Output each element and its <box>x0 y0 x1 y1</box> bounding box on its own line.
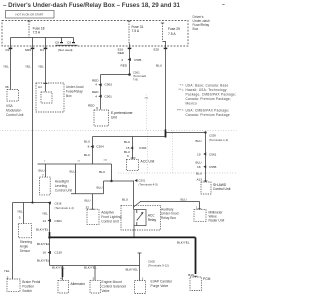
svg-text:Purge Valve: Purge Valve <box>151 284 169 288</box>
svg-text:USA: CMBS/PAX Package;: USA: CMBS/PAX Package; <box>186 108 230 112</box>
brake pedal position switch drop <box>12 203 14 280</box>
svg-text:Radar Unit: Radar Unit <box>209 219 225 223</box>
svg-text:Alternator: Alternator <box>71 282 86 286</box>
svg-text:14: 14 <box>43 219 47 223</box>
svg-text:7.5 A: 7.5 A <box>132 29 140 33</box>
stub C9 (not used) <box>73 38 75 43</box>
svg-text:16: 16 <box>43 250 47 254</box>
wire bus to adaptive front lighting <box>71 193 104 195</box>
section divider dotted lines <box>0 130 237 132</box>
svg-text:C8: C8 <box>55 41 59 45</box>
svg-text:BLK/YEL: BLK/YEL <box>84 266 97 270</box>
svg-text:Modulator-: Modulator- <box>6 109 22 113</box>
splice C559 <box>204 131 206 133</box>
svg-text:E20: E20 <box>154 47 160 51</box>
svg-text:YEL: YEL <box>38 65 44 69</box>
wire C501 to ACC relay <box>133 181 135 210</box>
svg-text:Control Unit: Control Unit <box>101 220 118 224</box>
svg-text:E-pretensioner: E-pretensioner <box>111 111 134 115</box>
wire splice to left <box>101 74 130 76</box>
svg-text:B16: B16 <box>188 273 194 277</box>
svg-text:M29: M29 <box>25 48 31 52</box>
svg-text:C558: C558 <box>209 165 217 169</box>
svg-text:Box: Box <box>193 27 199 31</box>
svg-text:Canada: Premium Package;: Canada: Premium Package; <box>186 97 232 101</box>
headlight leveling drop <box>45 164 47 177</box>
svg-text:BLK/YEL: BLK/YEL <box>125 268 138 272</box>
svg-text:38: 38 <box>5 85 9 89</box>
stub D1 <box>45 38 47 46</box>
svg-text:A1: A1 <box>38 85 42 89</box>
e-pretensioner unit <box>94 110 109 126</box>
driver's under-dash fuse/relay box (dashed) <box>2 21 188 47</box>
svg-text:– Driver's Under-dash Fuse/Rel: – Driver's Under-dash Fuse/Relay Box – F… <box>3 2 181 9</box>
connector C561 inline <box>203 152 206 155</box>
svg-text:–: – <box>222 2 225 8</box>
svg-text:Valve: Valve <box>102 289 110 293</box>
svg-text:6: 6 <box>127 154 129 158</box>
wire fuse31 E16 drop <box>129 46 131 75</box>
engine mount control solenoid valve <box>90 280 100 293</box>
svg-text:C130: C130 <box>55 250 63 254</box>
(Not used) bracket <box>56 44 78 46</box>
svg-text:D1: D1 <box>40 48 44 52</box>
fuse 29 <box>162 23 164 42</box>
svg-text:C801: C801 <box>55 219 63 223</box>
connector C585 <box>128 58 131 61</box>
svg-text:Fuse 29: Fuse 29 <box>168 27 180 31</box>
svg-text:EVAP Canister: EVAP Canister <box>151 280 174 284</box>
svg-text:YEL: YEL <box>42 212 48 216</box>
svg-text:RED: RED <box>88 104 95 108</box>
svg-text:C303: C303 <box>139 146 147 150</box>
connector C558 inline <box>203 165 206 168</box>
svg-text:Front Lighting: Front Lighting <box>101 215 121 219</box>
svg-text:YEL: YEL <box>25 65 31 69</box>
relay output wire to radar <box>134 202 141 208</box>
left bottom splice C818 <box>31 201 33 203</box>
svg-text:Control Unit: Control Unit <box>6 113 23 117</box>
svg-text:7.5 A: 7.5 A <box>168 32 176 36</box>
svg-text:(Terminals 4-5): (Terminals 4-5) <box>139 182 158 186</box>
connector ticks at box exits <box>9 47 13 49</box>
connector C901 <box>98 95 101 98</box>
svg-text:Switch: Switch <box>22 289 32 293</box>
svg-text:1: 1 <box>196 205 198 209</box>
svg-text:BLU: BLU <box>85 198 91 202</box>
headlight leveling control unit <box>40 177 51 195</box>
HOT IN ON OR START label box <box>6 11 55 19</box>
svg-text:BLU: BLU <box>196 139 202 143</box>
svg-text:Brake Pedal: Brake Pedal <box>22 280 40 284</box>
svg-text:C818: C818 <box>55 202 62 206</box>
connector C304 inline <box>90 145 93 148</box>
wire junction line left of fuse29 splice <box>93 136 166 138</box>
splice C561 <box>128 73 131 76</box>
svg-text:C304: C304 <box>96 145 104 149</box>
chain to SH-AWD <box>205 133 207 183</box>
svg-text:Engine Mount: Engine Mount <box>102 280 122 284</box>
connector C801 inline <box>48 219 51 222</box>
chain to e-pretensioner <box>100 75 102 110</box>
svg-text:A13: A13 <box>196 177 202 181</box>
svg-text:C559: C559 <box>209 133 216 137</box>
millimeter wave radar unit <box>194 209 206 221</box>
steering angle sensor <box>18 224 31 238</box>
svg-text:Hawaii; USA: Technology: Hawaii; USA: Technology <box>186 88 227 92</box>
svg-text:Relay Box: Relay Box <box>161 216 176 220</box>
svg-text:BLU: BLU <box>99 170 105 174</box>
svg-text:(Terminals 1-4): (Terminals 1-4) <box>209 138 228 142</box>
svg-text:BLU: BLU <box>196 172 202 176</box>
svg-text:1: 1 <box>142 277 144 281</box>
svg-text:BLU: BLU <box>156 64 162 68</box>
wire M29 long drop <box>32 46 34 203</box>
svg-text:7-8): 7-8) <box>133 77 138 81</box>
svg-text:BLU: BLU <box>181 197 187 201</box>
svg-text:** =: ** = <box>178 88 183 92</box>
svg-text:4: 4 <box>95 83 97 87</box>
svg-text:Control Unit: Control Unit <box>55 189 72 193</box>
svg-text:(Terminals 1-4): (Terminals 1-4) <box>55 206 74 210</box>
svg-text:YEL: YEL <box>4 269 10 273</box>
svg-text:C903: C903 <box>105 83 113 87</box>
svg-text:3: 3 <box>121 58 123 62</box>
svg-text:BLU: BLU <box>124 140 130 144</box>
engine mount drop <box>94 266 96 281</box>
ACC unit <box>127 159 139 170</box>
svg-text:Relay: Relay <box>148 218 157 222</box>
steering angle sensor drop <box>23 203 25 224</box>
SH-AWD control unit <box>201 182 211 194</box>
svg-text:BLK/YEL: BLK/YEL <box>37 259 50 263</box>
svg-text:Control Unit: Control Unit <box>213 187 230 191</box>
svg-text:15: 15 <box>126 146 130 150</box>
svg-text:* =: * = <box>180 84 184 88</box>
wire bus to splice C501 <box>104 180 134 182</box>
svg-text:C9: C9 <box>67 41 71 45</box>
fuse 31 <box>128 21 130 44</box>
svg-text:Leveling: Leveling <box>55 184 67 188</box>
svg-text:8: 8 <box>88 145 90 149</box>
svg-text:*** =: *** = <box>177 108 184 112</box>
svg-text:BLU: BLU <box>84 139 90 143</box>
svg-text:Unit: Unit <box>111 116 117 120</box>
svg-text:6: 6 <box>96 106 98 110</box>
stub C8 (not used) <box>61 38 63 43</box>
wire junction line right to C559 <box>166 132 206 134</box>
svg-text:YEL: YEL <box>3 65 9 69</box>
adaptive front lighting drop <box>92 194 94 209</box>
connector C903 <box>98 83 101 86</box>
svg-text:C585: C585 <box>134 58 142 62</box>
svg-text:BLK/YEL: BLK/YEL <box>177 240 190 244</box>
EVAP drop <box>139 266 141 281</box>
brake pedal position switch <box>7 279 20 292</box>
PCM <box>190 277 202 291</box>
svg-text:ACC Unit: ACC Unit <box>141 160 155 164</box>
splice blob <box>165 130 167 138</box>
svg-text:4: 4 <box>95 94 97 98</box>
svg-text:Control Solenoid: Control Solenoid <box>102 284 127 288</box>
svg-text:RED: RED <box>121 63 128 67</box>
svg-text:(Terminals 9-12): (Terminals 9-12) <box>148 264 169 268</box>
svg-text:BLU: BLU <box>84 153 90 157</box>
wire vertical to C501 bus <box>111 164 113 181</box>
EVAP canister purge valve <box>135 281 146 294</box>
svg-text:BLK/YEL: BLK/YEL <box>52 266 65 270</box>
svg-text:C561: C561 <box>209 152 217 156</box>
svg-text:VSA: VSA <box>6 104 13 108</box>
VSA modulator-control unit <box>7 90 19 102</box>
wire drop (** variant) <box>75 164 77 194</box>
svg-text:Mexico: Mexico <box>186 102 198 106</box>
under-hood fuse/relay box <box>36 83 64 112</box>
relay bottom stub <box>133 226 135 238</box>
svg-text:ACC: ACC <box>148 214 156 218</box>
svg-text:7.5 A: 7.5 A <box>33 30 41 34</box>
svg-text:Fuse/Relay: Fuse/Relay <box>66 90 83 94</box>
stub D2 <box>10 38 12 46</box>
svg-text:BLU: BLU <box>97 185 103 189</box>
svg-text:(Not used): (Not used) <box>58 48 72 52</box>
footnote legend <box>177 84 236 117</box>
chain to ACC unit <box>132 137 134 160</box>
svg-text:Canada: Premium Package: Canada: Premium Package <box>186 113 230 117</box>
chain C304 <box>92 137 94 165</box>
auxiliary under-hood relay box <box>121 205 161 230</box>
heavy wire bus to PCM <box>50 236 196 238</box>
svg-text:Sensor: Sensor <box>20 249 31 253</box>
fuse 18 <box>28 21 30 37</box>
svg-text:RED: RED <box>92 90 99 94</box>
svg-text:PCM: PCM <box>203 277 211 281</box>
connector C303 inline <box>130 146 133 149</box>
svg-text:Angle: Angle <box>20 245 29 249</box>
bus under fuse 18 <box>11 37 74 39</box>
svg-text:Headlight: Headlight <box>55 179 69 183</box>
wire D2 to VSA <box>10 46 12 90</box>
svg-text:USA: Base; Canada: Base: USA: Base; Canada: Base <box>186 84 229 88</box>
svg-text:Position: Position <box>22 284 34 288</box>
svg-text:19: 19 <box>197 152 201 156</box>
wire bus (headlight leveling feed) <box>38 163 112 165</box>
svg-text:5: 5 <box>19 216 21 220</box>
stub M29 <box>32 38 34 46</box>
box label <box>193 15 210 31</box>
svg-text:HOT IN ON OR START: HOT IN ON OR START <box>16 13 44 17</box>
wire fuse29 E20 drop <box>165 46 167 131</box>
svg-text:BLU: BLU <box>70 170 76 174</box>
svg-text:Package, CMBS/PAX Package;: Package, CMBS/PAX Package; <box>186 93 237 97</box>
svg-text:Box: Box <box>66 94 72 98</box>
wire D1 to under-hood box <box>45 46 47 92</box>
svg-text:Adaptive: Adaptive <box>101 210 114 214</box>
svg-text:BLK/YEL: BLK/YEL <box>37 242 50 246</box>
svg-text:18: 18 <box>197 165 201 169</box>
alternator drop <box>62 266 64 281</box>
svg-text:BLK/YEL: BLK/YEL <box>36 228 49 232</box>
wire bus to splice C605 <box>50 265 140 267</box>
connector C130 inline <box>48 251 51 254</box>
svg-text:Under-hood: Under-hood <box>66 85 84 89</box>
svg-text:BLU: BLU <box>122 197 128 201</box>
svg-text:RED: RED <box>118 51 125 55</box>
svg-text:YEL: YEL <box>17 210 23 214</box>
svg-text:BLU: BLU <box>39 168 45 172</box>
svg-text:Steering: Steering <box>20 240 32 244</box>
svg-text:C901: C901 <box>105 94 113 98</box>
svg-text:BLU: BLU <box>196 160 202 164</box>
ACC relay <box>134 210 146 226</box>
alternator <box>58 280 69 293</box>
adaptive front lighting control unit <box>91 208 95 210</box>
wire chain via C801/C130 <box>49 203 51 266</box>
